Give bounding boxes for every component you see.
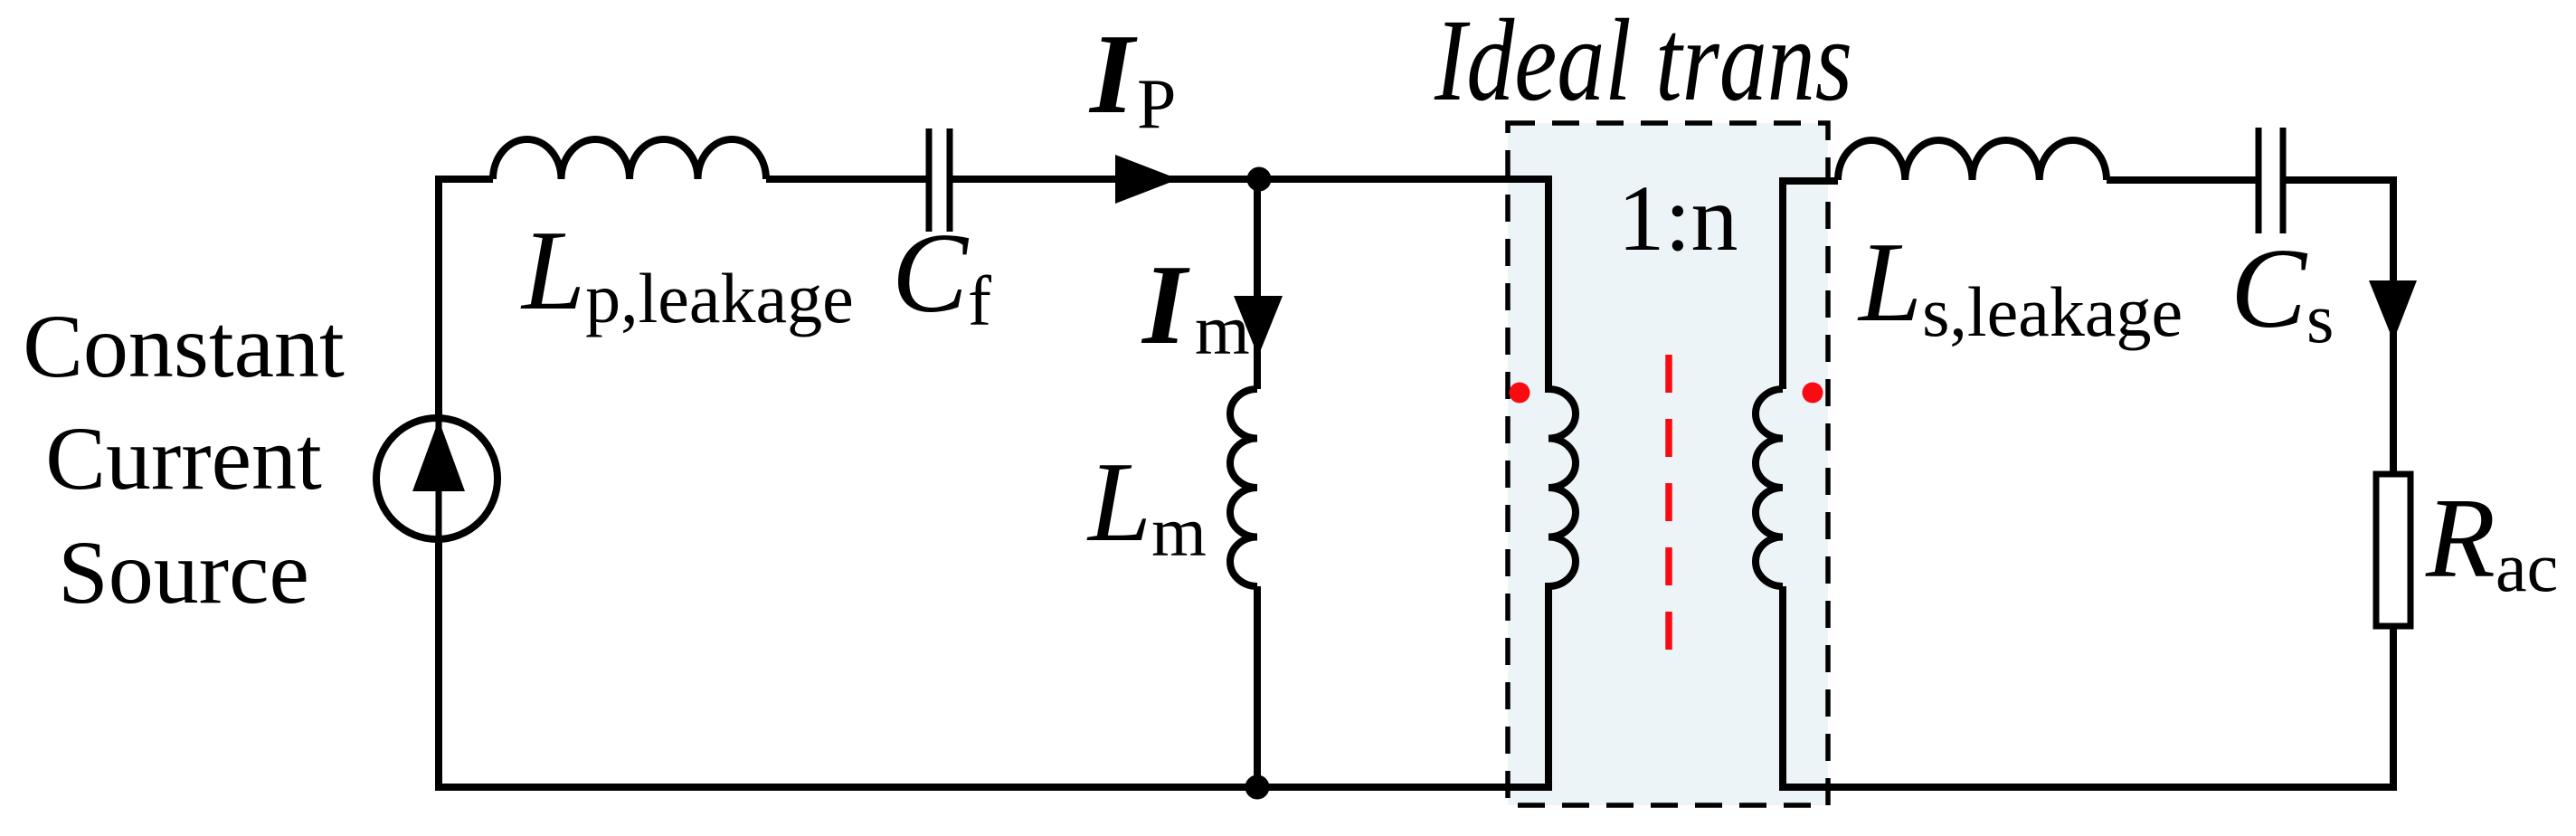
capacitor C_f [929, 128, 950, 232]
capacitor C_s [2259, 128, 2283, 233]
svg-text:Cs: Cs [2230, 226, 2334, 357]
red dashed divider [1665, 355, 1672, 650]
svg-text:I: I [1088, 12, 1138, 138]
wire: L_m branch upper [1254, 179, 1261, 389]
wire: right rail lower [2390, 626, 2397, 791]
wire: coil to C_s [2107, 176, 2256, 184]
svg-text:Rac: Rac [2425, 476, 2558, 606]
wire: L_m branch lower [1254, 586, 1261, 787]
wire: bottom rail left [435, 784, 1552, 791]
wire: coil to C_f [766, 176, 926, 183]
current source arrow [412, 420, 465, 491]
transformer secondary winding [1756, 181, 1838, 791]
wire: node to transformer primary [1259, 176, 1548, 183]
resistor R_ac [2376, 474, 2410, 626]
svg-text:m: m [1195, 290, 1250, 369]
transformer dashed box fill [1508, 123, 1828, 805]
arrow I_P [1115, 155, 1179, 204]
inductor L_s,leakage [1838, 140, 2107, 180]
svg-text:P: P [1137, 64, 1176, 143]
svg-text:Lm: Lm [1086, 440, 1207, 571]
wire: C_f to node [952, 176, 1259, 183]
primary dot (red) [1510, 383, 1530, 404]
svg-text:Lp,leakage: Lp,leakage [520, 208, 854, 337]
svg-text:Source: Source [58, 522, 309, 622]
node dot bottom [1245, 775, 1270, 800]
wire: bottom rail right [1783, 784, 2397, 791]
svg-text:Current: Current [45, 408, 322, 508]
wire: top-left horizontal [435, 176, 493, 183]
secondary dot (red) [1803, 383, 1823, 404]
wire: left rail (through current source) [435, 179, 442, 787]
current source circle [376, 418, 497, 539]
inductor L_m [1230, 389, 1257, 586]
transformer primary winding [1548, 176, 1576, 791]
svg-text:Constant: Constant [23, 296, 345, 396]
transformer dashed box border [1508, 123, 1828, 805]
current source shaft [436, 418, 442, 539]
wire: C_s to right corner and down [2286, 176, 2393, 474]
svg-text:I: I [1141, 242, 1190, 368]
svg-text:Cf: Cf [892, 211, 991, 340]
node dot top [1247, 167, 1272, 192]
inductor L_p,leakage [493, 139, 766, 179]
arrow down on right rail [2369, 280, 2417, 341]
svg-text:Ls,leakage: Ls,leakage [1857, 220, 2183, 351]
arrow I_m [1234, 296, 1283, 356]
svg-text:Ideal trans: Ideal trans [1434, 0, 1852, 126]
svg-text:1:n: 1:n [1618, 166, 1738, 271]
